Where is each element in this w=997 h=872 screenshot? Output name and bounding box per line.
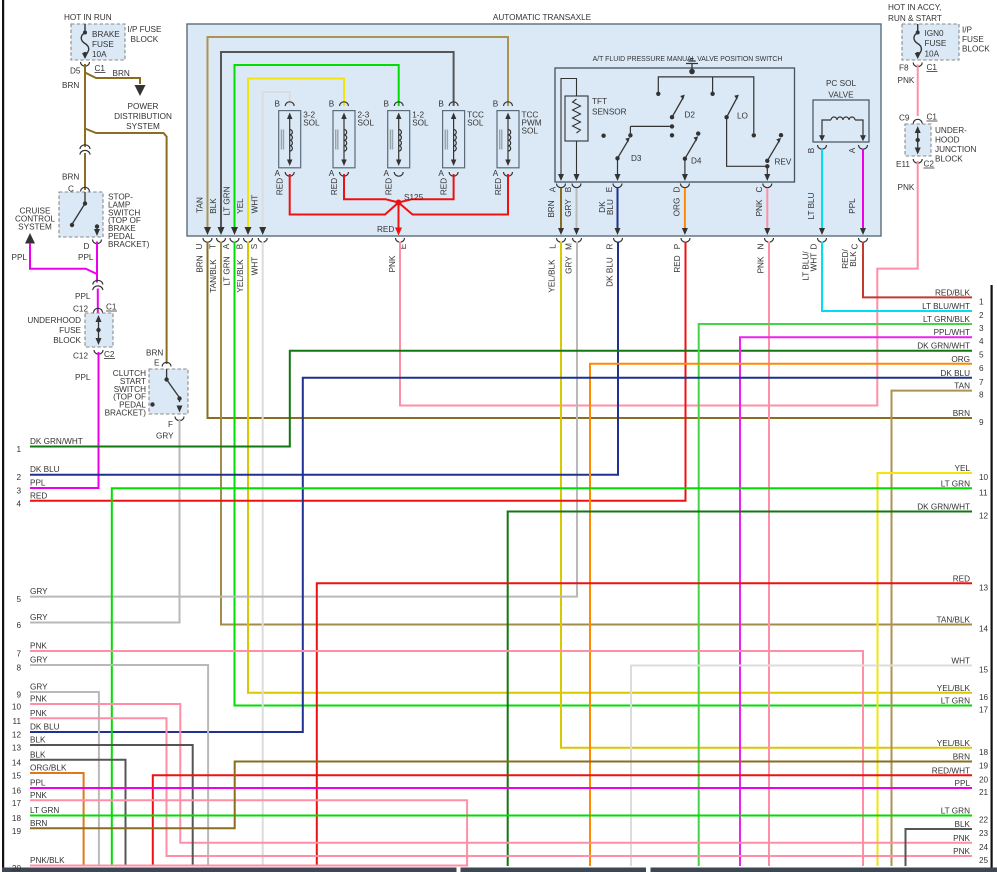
wire BRN A to transaxle connector [560,188,562,230]
svg-text:22: 22 [979,816,989,825]
svg-text:C1: C1 [95,64,106,73]
svg-text:FUSE: FUSE [925,39,947,48]
wire LT GRN stub11 right down to bottom connector [112,488,972,866]
svg-text:PPL: PPL [75,373,91,382]
svg-text:D4: D4 [691,157,702,166]
svg-text:D3: D3 [631,154,642,163]
contact (open) [601,134,605,138]
pin A of transaxle connector [230,238,239,242]
wire DK GRN/WHT stub12 right to bottom connector [508,512,972,867]
pin C1 of underhood junction block [913,119,922,123]
pin C1 of I/P fuse block [81,62,90,66]
svg-text:PPL: PPL [12,253,28,262]
arrowhead TAN at box bottom edge [204,227,211,235]
svg-text:DK GRN/WHT: DK GRN/WHT [30,437,83,446]
svg-text:PPL: PPL [955,779,971,788]
wire PPL/WHT stub4 right to bottom connector [740,337,972,866]
svg-text:B: B [493,100,499,109]
svg-text:BRN: BRN [30,819,47,828]
svg-text:A: A [549,186,558,192]
svg-text:20: 20 [979,775,989,784]
svg-text:RED: RED [377,225,394,234]
svg-text:13: 13 [979,583,989,592]
svg-text:B: B [274,100,280,109]
svg-text:N: N [757,243,766,249]
svg-text:D5: D5 [70,67,81,76]
fuse BRAKE FUSE 10A [84,24,86,31]
pin C of transaxle connector [859,238,868,242]
svg-text:RED: RED [953,574,970,583]
svg-text:5: 5 [979,351,984,360]
svg-text:E11: E11 [896,160,910,169]
wire PNK C to transaxle connector [766,188,768,230]
svg-text:20: 20 [12,864,22,872]
svg-text:FUSE: FUSE [92,40,114,49]
wire LT GRN A-pin to stub17 right [235,242,973,706]
arrowhead ORG D [682,228,688,235]
svg-text:2: 2 [16,473,21,482]
wire REV to pin C [766,166,768,177]
svg-text:POWER: POWER [128,102,159,111]
svg-text:B: B [807,147,816,153]
svg-text:PNK: PNK [953,847,970,856]
svg-text:RED/WHT: RED/WHT [932,766,970,775]
svg-text:GRY: GRY [30,683,48,692]
wire PPL stub16 left to stub21 right [30,787,972,789]
arrowhead WHT at box bottom edge [259,227,266,235]
svg-text:BRN: BRN [146,349,163,358]
arrowhead LT BLU [819,228,825,235]
wire LT GRN/BLK stub3 right to bottom connector [699,324,972,866]
svg-text:RUN & START: RUN & START [888,14,942,23]
wire PPL to stub3 [30,352,99,488]
svg-text:PPL: PPL [75,292,91,301]
svg-text:DK GRN/WHT: DK GRN/WHT [917,503,970,512]
underhood fuse block feed-through [96,315,102,345]
wire BLK stub14 left to bottom connector [30,760,126,866]
solenoid TCC SOL [438,100,484,196]
svg-text:DK BLU: DK BLU [30,723,60,732]
contact D3 [615,137,642,163]
svg-text:BLK: BLK [849,251,858,267]
arrowhead BRN A [558,228,564,235]
junction block feed-through [915,126,921,155]
wire YEL stub10 right to bottom connector [878,473,973,866]
bottom component box edge (segment 1) [2,868,457,872]
svg-text:16: 16 [12,787,22,796]
svg-text:A: A [329,169,335,178]
pin C of position switch [763,184,772,188]
svg-text:C9: C9 [899,114,910,123]
svg-text:R: R [606,243,615,249]
pin L of transaxle connector [557,238,566,242]
pin E of transaxle connector [396,238,405,242]
solenoid 2-3 SOL [329,100,375,196]
svg-text:BLOCK: BLOCK [131,35,159,44]
svg-text:AUTOMATIC TRANSAXLE: AUTOMATIC TRANSAXLE [493,13,592,22]
svg-text:GRY: GRY [30,587,48,596]
svg-text:PNK: PNK [953,834,970,843]
svg-text:C12: C12 [73,305,88,314]
svg-text:WHT: WHT [951,657,970,666]
wire BRN branch [85,73,140,85]
svg-text:PNK: PNK [898,183,915,192]
wire WHT S-pin to bottom connector [262,242,264,867]
pin B of position switch [572,184,581,188]
pin M of transaxle connector [573,238,582,242]
svg-text:LT GRN/BLK: LT GRN/BLK [923,315,971,324]
svg-text:C1: C1 [927,113,938,122]
svg-text:DK BLU: DK BLU [30,465,60,474]
automatic transaxle component box [187,24,881,236]
pin D of position switch [680,184,689,188]
svg-text:BRN: BRN [953,753,970,762]
svg-text:18: 18 [979,748,989,757]
wire switch common bus [658,77,754,133]
wire YEL/BLK B-pin to stub16 right [248,242,972,693]
svg-text:DK BLU: DK BLU [606,257,615,287]
svg-text:C1: C1 [927,63,938,72]
svg-text:B: B [438,100,444,109]
svg-text:B: B [383,100,389,109]
wire TAN/BLK T-pin to stub14 right [221,242,972,625]
svg-text:S125: S125 [404,193,424,202]
svg-text:4: 4 [979,337,984,346]
svg-text:18: 18 [12,814,22,823]
pin A of position switch [557,184,566,188]
fuse IGN0 FUSE 10A [917,24,919,31]
svg-text:ORG/BLK: ORG/BLK [30,764,67,773]
clutch start switch [149,369,188,414]
svg-text:LT GRN: LT GRN [941,697,970,706]
wire WHT solenoid feed [263,92,290,230]
wire D4 to pin D [684,159,686,177]
wire LO to REV link [727,117,768,166]
svg-text:HOT IN ACCY,: HOT IN ACCY, [888,3,941,12]
svg-text:BLU: BLU [606,199,615,215]
svg-text:BRN: BRN [953,409,970,418]
pin U of transaxle connector [203,238,212,242]
wire D2 row link [630,126,672,133]
underhood fuse block [85,313,113,347]
svg-text:BRACKET): BRACKET) [108,240,150,249]
svg-text:RED: RED [276,178,285,195]
wire BRN to stop-lamp [84,153,86,190]
svg-text:9: 9 [979,418,984,427]
svg-text:4: 4 [16,499,21,508]
svg-text:BRAKE: BRAKE [92,30,120,39]
svg-text:BLOCK: BLOCK [962,45,990,54]
svg-text:D2: D2 [685,111,696,120]
svg-text:C2: C2 [924,160,935,169]
svg-text:C1: C1 [106,303,117,312]
svg-text:SOL: SOL [522,127,539,136]
wire BLK stub23 right to bottom connector [906,829,973,866]
wire RED stub13 right to bottom connector [317,583,972,866]
svg-text:DK GRN/WHT: DK GRN/WHT [917,342,970,351]
svg-text:JUNCTION: JUNCTION [935,145,976,154]
pin E of clutch start switch [162,362,171,366]
arrowhead PNK C [764,228,770,235]
svg-text:UNDERHOOD: UNDERHOOD [27,316,81,325]
wire PNK to pin E [400,161,918,406]
svg-text:16: 16 [979,693,989,702]
wire PPL down [96,242,98,283]
svg-text:P: P [673,243,682,249]
arrowhead to cruise control system [25,233,35,244]
svg-text:15: 15 [979,666,989,675]
svg-text:19: 19 [979,762,989,771]
svg-text:BLK: BLK [209,198,218,214]
svg-text:ORG: ORG [673,198,682,217]
contact D4 [683,131,702,165]
right page border [991,285,993,872]
svg-text:8: 8 [979,391,984,400]
wire DK GRN/WHT stub1 left to stub5 right [30,351,972,447]
svg-text:RED/BLK: RED/BLK [935,288,971,297]
svg-text:PNK: PNK [30,791,47,800]
svg-text:B: B [329,100,335,109]
svg-text:RED: RED [440,178,449,195]
svg-text:A/T FLUID PRESSURE MANUAL VALV: A/T FLUID PRESSURE MANUAL VALVE POSITION… [593,56,783,63]
wire RED/WHT stub20 right to bottom connector [153,775,972,866]
svg-text:E: E [154,359,160,368]
arrowhead BLK at box bottom edge [218,227,225,235]
svg-text:3: 3 [979,324,984,333]
svg-text:PPL: PPL [78,253,94,262]
wire PPL PC sol A [862,149,864,230]
svg-text:BLOCK: BLOCK [935,155,963,164]
wire LT GRN stub18 left to stub22 right [30,815,972,817]
svg-text:15: 15 [12,772,22,781]
svg-text:TAN: TAN [196,197,205,213]
arrowhead LTGRN at box bottom edge [231,227,238,235]
wire PNK stub10 left to stub24 right [30,704,972,843]
wire GRY B to transaxle connector [576,188,578,230]
I/P fuse block (brake fuse) [71,24,125,60]
svg-text:1: 1 [16,445,21,454]
wire DK BLU E to transaxle connector [617,188,619,230]
contact LO [724,95,748,121]
wire PNK N-pin to bottom connector [768,242,770,867]
svg-text:BRN: BRN [547,200,556,217]
wire ORG stub6 right to bottom connector [590,364,972,866]
svg-text:YEL/BLK: YEL/BLK [937,684,971,693]
svg-text:YEL/BLK: YEL/BLK [236,259,245,293]
TFT sensor [558,79,627,182]
svg-text:PNK: PNK [898,76,915,85]
arrowhead YEL at box bottom edge [245,227,252,235]
svg-text:B: B [236,243,245,249]
svg-text:6: 6 [16,621,21,630]
svg-text:HOT IN RUN: HOT IN RUN [64,13,112,22]
svg-text:10A: 10A [92,50,107,59]
in-line connector on PPL [96,283,99,287]
svg-text:C2: C2 [104,350,115,359]
solenoid 1-2 SOL [383,100,429,196]
svg-text:12: 12 [979,512,989,521]
svg-text:BLK: BLK [30,736,46,745]
svg-text:DK BLU: DK BLU [940,369,970,378]
pin R of transaxle connector [614,238,623,242]
svg-text:PPL: PPL [30,779,46,788]
svg-text:TAN/BLK: TAN/BLK [209,259,218,293]
svg-text:LT GRN: LT GRN [30,806,59,815]
pin B of PC sol valve [818,145,827,149]
wire TAN solenoid feed [208,37,509,230]
solenoid TCC PWM SOL [493,100,542,196]
svg-text:SOL: SOL [412,119,429,128]
svg-text:C12: C12 [73,352,88,361]
svg-text:RED: RED [30,491,47,500]
pin S of transaxle connector [258,238,267,242]
PC solenoid valve [813,79,869,142]
wire DK BLU R-pin to stub2 left [30,242,618,475]
wire BRN fuse output [84,64,86,147]
svg-text:E: E [605,186,614,192]
wire RED P-pin to stub4 left [30,242,686,501]
svg-text:A: A [222,243,231,249]
svg-text:GRY: GRY [565,256,574,274]
svg-text:YEL: YEL [236,198,245,214]
wire PNK fuse output [917,65,919,117]
wire BRN stub19 left to stub19 right [30,762,972,829]
svg-text:LT BLU: LT BLU [807,192,816,219]
wire BRN U-pin to stub9 right [208,242,973,419]
wire GRY stub8 left to bottom connector [30,665,208,866]
svg-text:C: C [755,186,764,192]
svg-text:BRN: BRN [196,255,205,272]
svg-text:PPL/WHT: PPL/WHT [934,328,970,337]
pin B of transaxle connector [244,238,253,242]
svg-text:5: 5 [16,595,21,604]
in-line connector on BRN [83,148,86,152]
wire PNK stub17 left to PNK/BLK stub20 left [30,800,467,865]
svg-text:25: 25 [979,856,989,865]
svg-text:2: 2 [979,311,984,320]
svg-text:PNK/BLK: PNK/BLK [30,856,65,865]
svg-text:YEL/BLK: YEL/BLK [937,739,971,748]
wire PNK stub7 left to bottom connector [30,651,863,866]
svg-text:12: 12 [12,731,22,740]
I/P fuse block (IGN0 fuse) [902,24,959,60]
wire YEL/BLK L-pin to stub18 right [561,242,972,748]
svg-text:YEL/BLK: YEL/BLK [548,259,557,293]
pin C1 of underhood fuse block [94,308,103,312]
A/T fluid pressure manual valve position switch box [555,68,795,182]
svg-text:TAN: TAN [954,382,970,391]
wire BRN to clutch switch [85,129,167,365]
pin N of transaxle connector [765,238,774,242]
svg-text:PNK: PNK [755,199,764,216]
wire WHT stub15 right to bottom connector [631,666,972,867]
svg-text:BRACKET): BRACKET) [105,409,147,418]
svg-text:FUSE: FUSE [59,326,81,335]
svg-text:PPL: PPL [848,198,857,214]
svg-text:13: 13 [12,744,22,753]
svg-text:BLK: BLK [30,750,46,759]
svg-text:LT BLU/WHT: LT BLU/WHT [922,302,970,311]
svg-text:IGN0: IGN0 [925,29,945,38]
svg-text:FUSE: FUSE [962,35,984,44]
svg-text:BLK: BLK [955,820,971,829]
pin F of clutch start switch [175,417,184,421]
pin P of transaxle connector [681,238,690,242]
svg-text:7: 7 [16,650,21,659]
svg-text:SOL: SOL [467,119,484,128]
pin D of transaxle connector [818,238,827,242]
svg-text:3: 3 [16,487,21,496]
svg-text:11: 11 [979,488,988,497]
svg-text:GRY: GRY [156,432,174,441]
svg-text:VALVE: VALVE [828,91,854,100]
svg-text:GRY: GRY [30,613,48,622]
pin D of stop-lamp switch [93,240,102,244]
svg-text:PNK: PNK [30,695,47,704]
svg-text:S: S [250,243,259,249]
svg-text:TAN/BLK: TAN/BLK [936,616,970,625]
svg-text:WHT: WHT [251,257,260,276]
svg-text:10A: 10A [925,50,940,59]
arrowhead to POWER DISTRIBUTION SYSTEM [135,85,146,96]
wire GRY stub9 left to bottom connector [30,692,99,866]
svg-text:8: 8 [16,664,21,673]
underhood junction block [905,124,931,156]
arrowhead RED at pin E [395,228,402,236]
wire RED 2-3 SOL A [344,174,399,203]
svg-text:LT GRN: LT GRN [223,186,232,215]
pin C of stop-lamp switch [81,187,90,191]
ground (switch common) [686,59,698,75]
arrowhead PPL [860,228,866,235]
svg-text:HOOD: HOOD [935,136,960,145]
svg-text:21: 21 [979,788,989,797]
svg-text:17: 17 [979,706,989,715]
svg-text:F8: F8 [899,64,909,73]
svg-text:SENSOR: SENSOR [592,108,627,117]
wire RED TCC SOL A [399,174,454,203]
svg-text:RED: RED [385,178,394,195]
svg-text:A: A [383,169,389,178]
svg-text:LT GRN: LT GRN [941,479,970,488]
pin C1 of I/P fuse block [913,63,922,67]
pin C2 of underhood fuse block [94,350,103,354]
svg-text:TFT: TFT [592,97,607,106]
svg-text:RED: RED [494,178,503,195]
wire LT BLU/WHT D-pin to stub2 right [822,242,972,312]
svg-text:I/P FUSE: I/P FUSE [128,25,163,34]
wire LT BLU PC sol B [821,149,823,230]
svg-text:WHT: WHT [251,195,260,214]
stop-lamp switch contacts [70,192,100,236]
svg-text:10: 10 [12,703,22,712]
svg-text:PPL: PPL [30,479,46,488]
svg-text:SOL: SOL [303,119,320,128]
wire RED 3-2 SOL A [290,174,399,215]
wire PPL cruise branch [30,243,97,274]
left page border [2,0,4,872]
wire ORG D to transaxle connector [684,188,686,230]
bottom component box edge (segment 3) [651,868,997,872]
wire DK BLU stub7 right to stub12 left [30,378,972,732]
pin T of transaxle connector [217,238,226,242]
svg-text:14: 14 [979,625,989,634]
clutch start switch contacts [150,369,182,413]
svg-text:YEL: YEL [955,464,971,473]
svg-text:UNDER-: UNDER- [935,126,967,135]
wire ORG/BLK stub15 left to bottom connector [30,773,84,866]
svg-text:23: 23 [979,829,989,838]
